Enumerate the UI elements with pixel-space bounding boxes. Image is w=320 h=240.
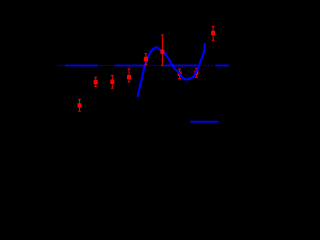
data point 5 (over curve) — [145, 54, 148, 65]
data point 1 — [78, 99, 81, 111]
data point 8 (under curve) — [195, 68, 198, 77]
data point 3 — [111, 75, 114, 88]
data point 6 (over curve) — [161, 35, 164, 65]
dashed baseline segment 1 — [65, 65, 98, 67]
legend line — [190, 121, 218, 123]
data point 9 — [212, 26, 215, 40]
data point 4 — [128, 69, 131, 82]
data point 2 — [94, 77, 97, 86]
fit curve — [138, 44, 205, 96]
data point 7 (under curve) — [178, 69, 181, 78]
dashed baseline segment 3 — [164, 65, 197, 67]
dashed baseline segment 4 — [215, 65, 229, 67]
dashed baseline segment 2 — [115, 65, 145, 67]
dotted baseline — [58, 65, 214, 67]
